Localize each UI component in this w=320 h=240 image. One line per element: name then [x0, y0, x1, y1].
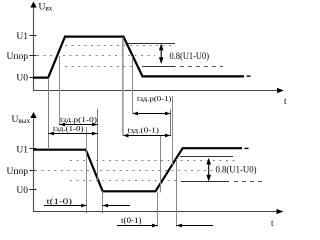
svg-text:tзд.р(1-0): tзд.р(1-0)	[60, 115, 98, 124]
svg-text:U0: U0	[16, 74, 28, 84]
svg-text:t(0-1): t(0-1)	[121, 215, 142, 225]
svg-text:U1: U1	[16, 32, 28, 42]
svg-text:0.8(U1-U0): 0.8(U1-U0)	[216, 165, 257, 175]
svg-text:tзд.(0-1): tзд.(0-1)	[128, 125, 160, 134]
svg-text:t(1-0): t(1-0)	[47, 196, 73, 206]
svg-text:U0: U0	[16, 186, 28, 196]
svg-text:0.8(U1-U0): 0.8(U1-U0)	[170, 51, 210, 61]
svg-text:tзд.(1-0): tзд.(1-0)	[53, 124, 84, 133]
svg-text:Uпор: Uпор	[7, 52, 29, 62]
svg-text:tзд.р(0-1): tзд.р(0-1)	[137, 94, 172, 103]
svg-text:Uвх: Uвх	[39, 3, 53, 13]
svg-text:U1: U1	[16, 145, 28, 155]
svg-text:Uпор: Uпор	[7, 167, 29, 177]
svg-text:Uвых: Uвых	[12, 115, 31, 125]
